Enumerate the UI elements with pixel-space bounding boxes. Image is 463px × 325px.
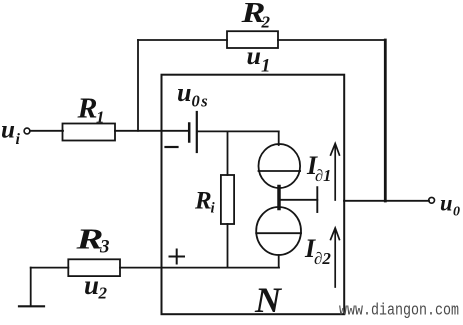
svg-text:∂1: ∂1 [315, 166, 331, 185]
wire down to Ri [227, 131, 229, 175]
label R2 value [240, 0, 270, 32]
svg-text:i: i [16, 131, 21, 148]
svg-text:2: 2 [98, 284, 108, 303]
svg-text:u: u [440, 191, 453, 216]
node u_0 output terminal [429, 197, 435, 203]
plus sign polarity mark [170, 250, 185, 264]
svg-text:u: u [177, 78, 192, 107]
wire battery to circle-1 branch, junction at x=227.5 [198, 130, 279, 132]
wire output from box to terminal [344, 200, 429, 202]
wire circle-2 bottom to bottom rail [278, 255, 280, 268]
watermark www.diangon.com [339, 301, 459, 320]
svg-text:2: 2 [261, 13, 271, 32]
svg-text:1: 1 [96, 108, 105, 127]
resistor Ri [221, 175, 234, 224]
wire vertical from junction up to R2 branch [137, 40, 139, 131]
wire junction bar between current sources [277, 187, 281, 209]
wire R2 to feedback drop [278, 39, 385, 41]
box N outline [162, 75, 345, 315]
label Ri value [194, 188, 216, 217]
minus sign polarity mark [166, 146, 178, 148]
svg-text:u: u [1, 117, 15, 144]
battery u_0s long plate (positive) [196, 112, 198, 152]
resistor R1 [63, 124, 116, 141]
resistor R3 [68, 259, 120, 276]
wire feedback vertical (thick) down to output node [384, 40, 387, 201]
svg-text:u: u [247, 43, 262, 70]
label u1 value [247, 43, 271, 77]
svg-text:R: R [76, 94, 97, 125]
resistor R2 [227, 31, 278, 48]
node tick termination [316, 187, 318, 212]
label R3 value [75, 225, 109, 258]
svg-text:0s: 0s [192, 92, 210, 111]
label N network name [254, 280, 283, 320]
label u_i [1, 117, 21, 149]
svg-text:i: i [211, 201, 216, 217]
wire R3 to box (non-inverting side) [120, 267, 279, 269]
label u_0s value [177, 78, 209, 111]
node u_i input terminal [24, 128, 30, 134]
svg-text:N: N [254, 280, 283, 320]
svg-text:1: 1 [261, 56, 271, 77]
wire Ri bottom to bottom rail [227, 224, 229, 268]
current source I∂2 [256, 207, 301, 255]
label I∂1 value [306, 151, 331, 185]
battery u_0s short plate (negative) [188, 124, 191, 142]
label u2 value [84, 270, 108, 303]
wire input terminal to R1 [30, 130, 63, 132]
svg-text:u: u [84, 270, 99, 300]
wire mid node to tick terminal [280, 199, 317, 201]
current source I∂1 [259, 144, 301, 188]
wire down from top rail to current source I∂1 [278, 131, 280, 145]
wire R1 to battery (through box edge), junction at x=138 [115, 130, 189, 132]
svg-text:www.diangon.com: www.diangon.com [339, 301, 459, 320]
wire top to R2 [138, 39, 227, 41]
ground [19, 305, 44, 307]
svg-text:0: 0 [453, 205, 460, 220]
svg-text:R: R [194, 188, 212, 215]
label u_0 output [440, 191, 460, 220]
svg-text:3: 3 [99, 237, 110, 258]
arrow current direction I∂1 [331, 144, 340, 201]
wire left of R3 [31, 267, 69, 269]
wire down to ground [30, 268, 32, 306]
label R1 value [76, 94, 104, 127]
svg-text:∂2: ∂2 [314, 249, 331, 268]
label I∂2 value [304, 234, 331, 268]
arrow current direction I∂2 [331, 228, 340, 287]
